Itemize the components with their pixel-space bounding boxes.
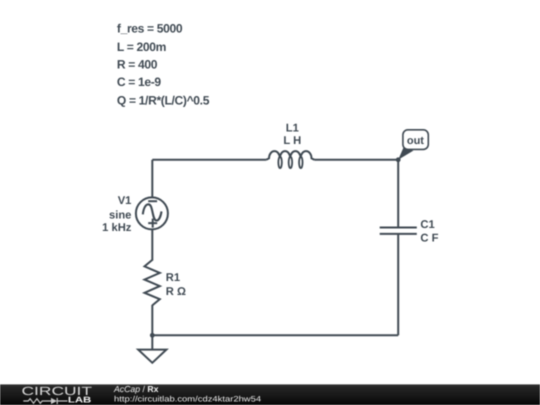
svg-text:Q = 1/R*(L/C)^0.5: Q = 1/R*(L/C)^0.5 (117, 93, 210, 107)
resistor R1 (145, 260, 160, 306)
wire V1 to R1 (151, 229, 153, 260)
svg-text:1 kHz: 1 kHz (102, 222, 132, 234)
junction node (out) (396, 157, 401, 162)
svg-text:out: out (407, 135, 424, 147)
svg-text:L = 200m: L = 200m (117, 40, 166, 54)
inductor L1 (266, 151, 314, 168)
svg-text:R Ω: R Ω (166, 286, 186, 298)
wire top right segment (314, 159, 398, 161)
svg-text:R1: R1 (166, 272, 180, 284)
svg-text:V1: V1 (118, 195, 132, 207)
svg-text:C1: C1 (420, 219, 434, 231)
label V1 (102, 195, 132, 234)
ground (138, 335, 166, 363)
svg-text:R = 400: R = 400 (117, 57, 158, 71)
wire R1 to bottom junction (151, 305, 153, 335)
svg-text:L H: L H (283, 135, 301, 147)
svg-text:L1: L1 (286, 123, 299, 135)
node flag out (398, 130, 428, 160)
logo resistor-diode glyph (23, 398, 67, 404)
svg-text:http://circuitlab.com/cdz4ktar: http://circuitlab.com/cdz4ktar2hw54 (114, 395, 262, 404)
junction node (bottom, at ground) (150, 333, 155, 338)
wire left vertical (top corner to V1) (151, 160, 153, 198)
svg-text:AcCap / Rx: AcCap / Rx (113, 384, 159, 394)
svg-text:f_res = 5000: f_res = 5000 (117, 22, 183, 36)
label L1 (283, 123, 301, 147)
svg-text:LAB: LAB (68, 395, 91, 405)
svg-text:sine: sine (109, 209, 131, 221)
capacitor C1 (380, 228, 417, 234)
wire right vertical lower (bottom corner to C1) (397, 234, 399, 335)
svg-text:C = 1e-9: C = 1e-9 (117, 75, 162, 89)
label C1 (420, 219, 438, 244)
wire bottom horizontal (152, 334, 398, 336)
annotation parameter text block (117, 22, 210, 108)
voltage source V1 (136, 197, 168, 229)
wire top left segment (152, 159, 266, 161)
wire right vertical upper (C1 to out node) (397, 160, 399, 228)
svg-text:C F: C F (420, 232, 438, 244)
label R1 (166, 272, 186, 298)
